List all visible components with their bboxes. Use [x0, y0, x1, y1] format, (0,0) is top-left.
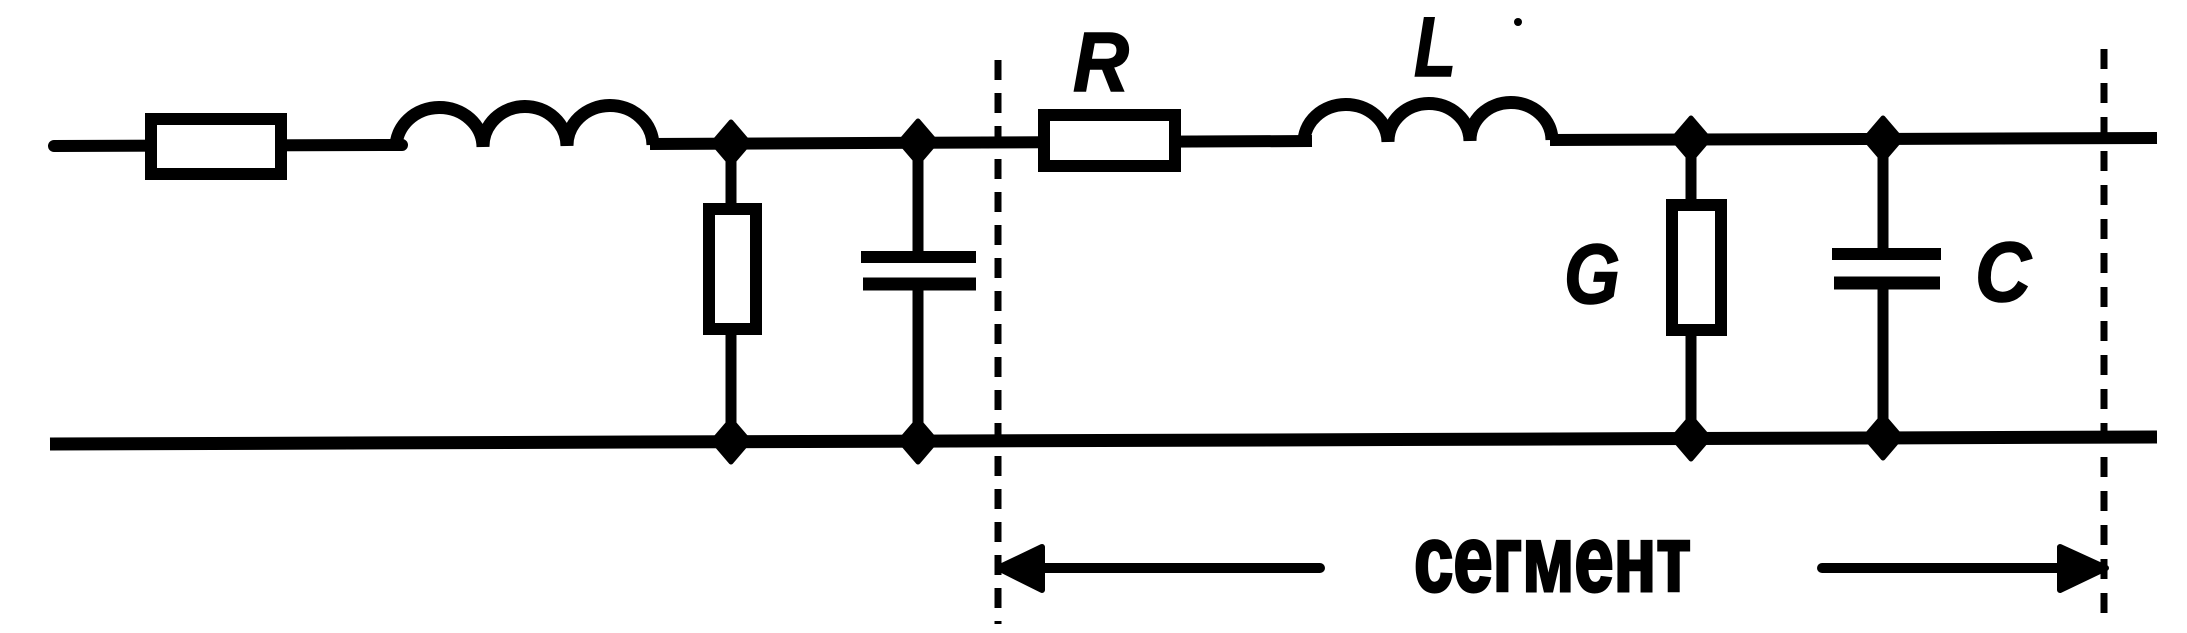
wire: bottom return conductor — [50, 437, 2157, 444]
svg-text:G: G — [1564, 227, 1620, 321]
resistor (series, unlabeled, left segment) — [151, 119, 281, 174]
svg-text:сегмент: сегмент — [1414, 506, 1691, 611]
dimension arrow (left, pointing to left segment boundary) — [1041, 563, 1320, 573]
wire: shunt resistor bottom lead — [726, 325, 737, 441]
wire: shunt capacitor top lead — [913, 142, 924, 256]
wire: capacitance C top lead — [1878, 139, 1889, 253]
wire: shunt capacitor bottom lead — [913, 284, 924, 441]
capacitor C (shunt capacitance of segment) bottom plate — [1834, 277, 1940, 290]
inductor (series, unlabeled, left segment) — [396, 106, 653, 148]
node: capacitance C junction on top conductor — [1865, 118, 1901, 160]
node: shunt resistor junction on top conductor — [713, 122, 749, 164]
node: shunt capacitor junction on top conductor — [900, 121, 936, 163]
wire: conductance G top lead — [1686, 139, 1697, 212]
wire: top conductor, left segment — [54, 145, 402, 146]
capacitor (shunt, unlabeled, left segment) top plate — [861, 251, 976, 263]
inductor L (series inductance of segment) — [1304, 103, 1552, 143]
wire: conductance G bottom lead — [1686, 330, 1697, 438]
resistor (shunt, unlabeled, left segment) — [709, 209, 756, 329]
wire: top conductor, middle segment — [650, 141, 1312, 144]
segment boundary: right dashed line — [2101, 49, 2108, 624]
dimension arrow (right, pointing to right segment boundary) — [1822, 563, 2060, 573]
node: conductance G junction on bottom conductor — [1673, 417, 1709, 459]
wire: shunt resistor top lead — [726, 143, 737, 215]
node: capacitance C junction on bottom conductor — [1865, 416, 1901, 458]
svg-text:L: L — [1414, 0, 1456, 94]
resistor G (shunt conductance of segment) — [1672, 205, 1721, 330]
node: conductance G junction on top conductor — [1673, 118, 1709, 160]
svg-text:C: C — [1975, 225, 2032, 319]
resistor R (series resistance of segment) — [1044, 115, 1175, 166]
capacitor (shunt, unlabeled, left segment) bottom plate — [863, 278, 976, 291]
segment boundary: left dashed line — [995, 60, 1002, 624]
node: shunt resistor junction on bottom conductor — [713, 420, 749, 462]
wire: top conductor, right segment — [1550, 138, 2157, 140]
svg-text:R: R — [1073, 15, 1129, 109]
node: shunt capacitor junction on bottom conductor — [900, 420, 936, 462]
wire: capacitance C bottom lead — [1878, 283, 1889, 437]
ink speck — [1514, 18, 1522, 26]
capacitor C (shunt capacitance of segment) top plate — [1832, 248, 1941, 260]
